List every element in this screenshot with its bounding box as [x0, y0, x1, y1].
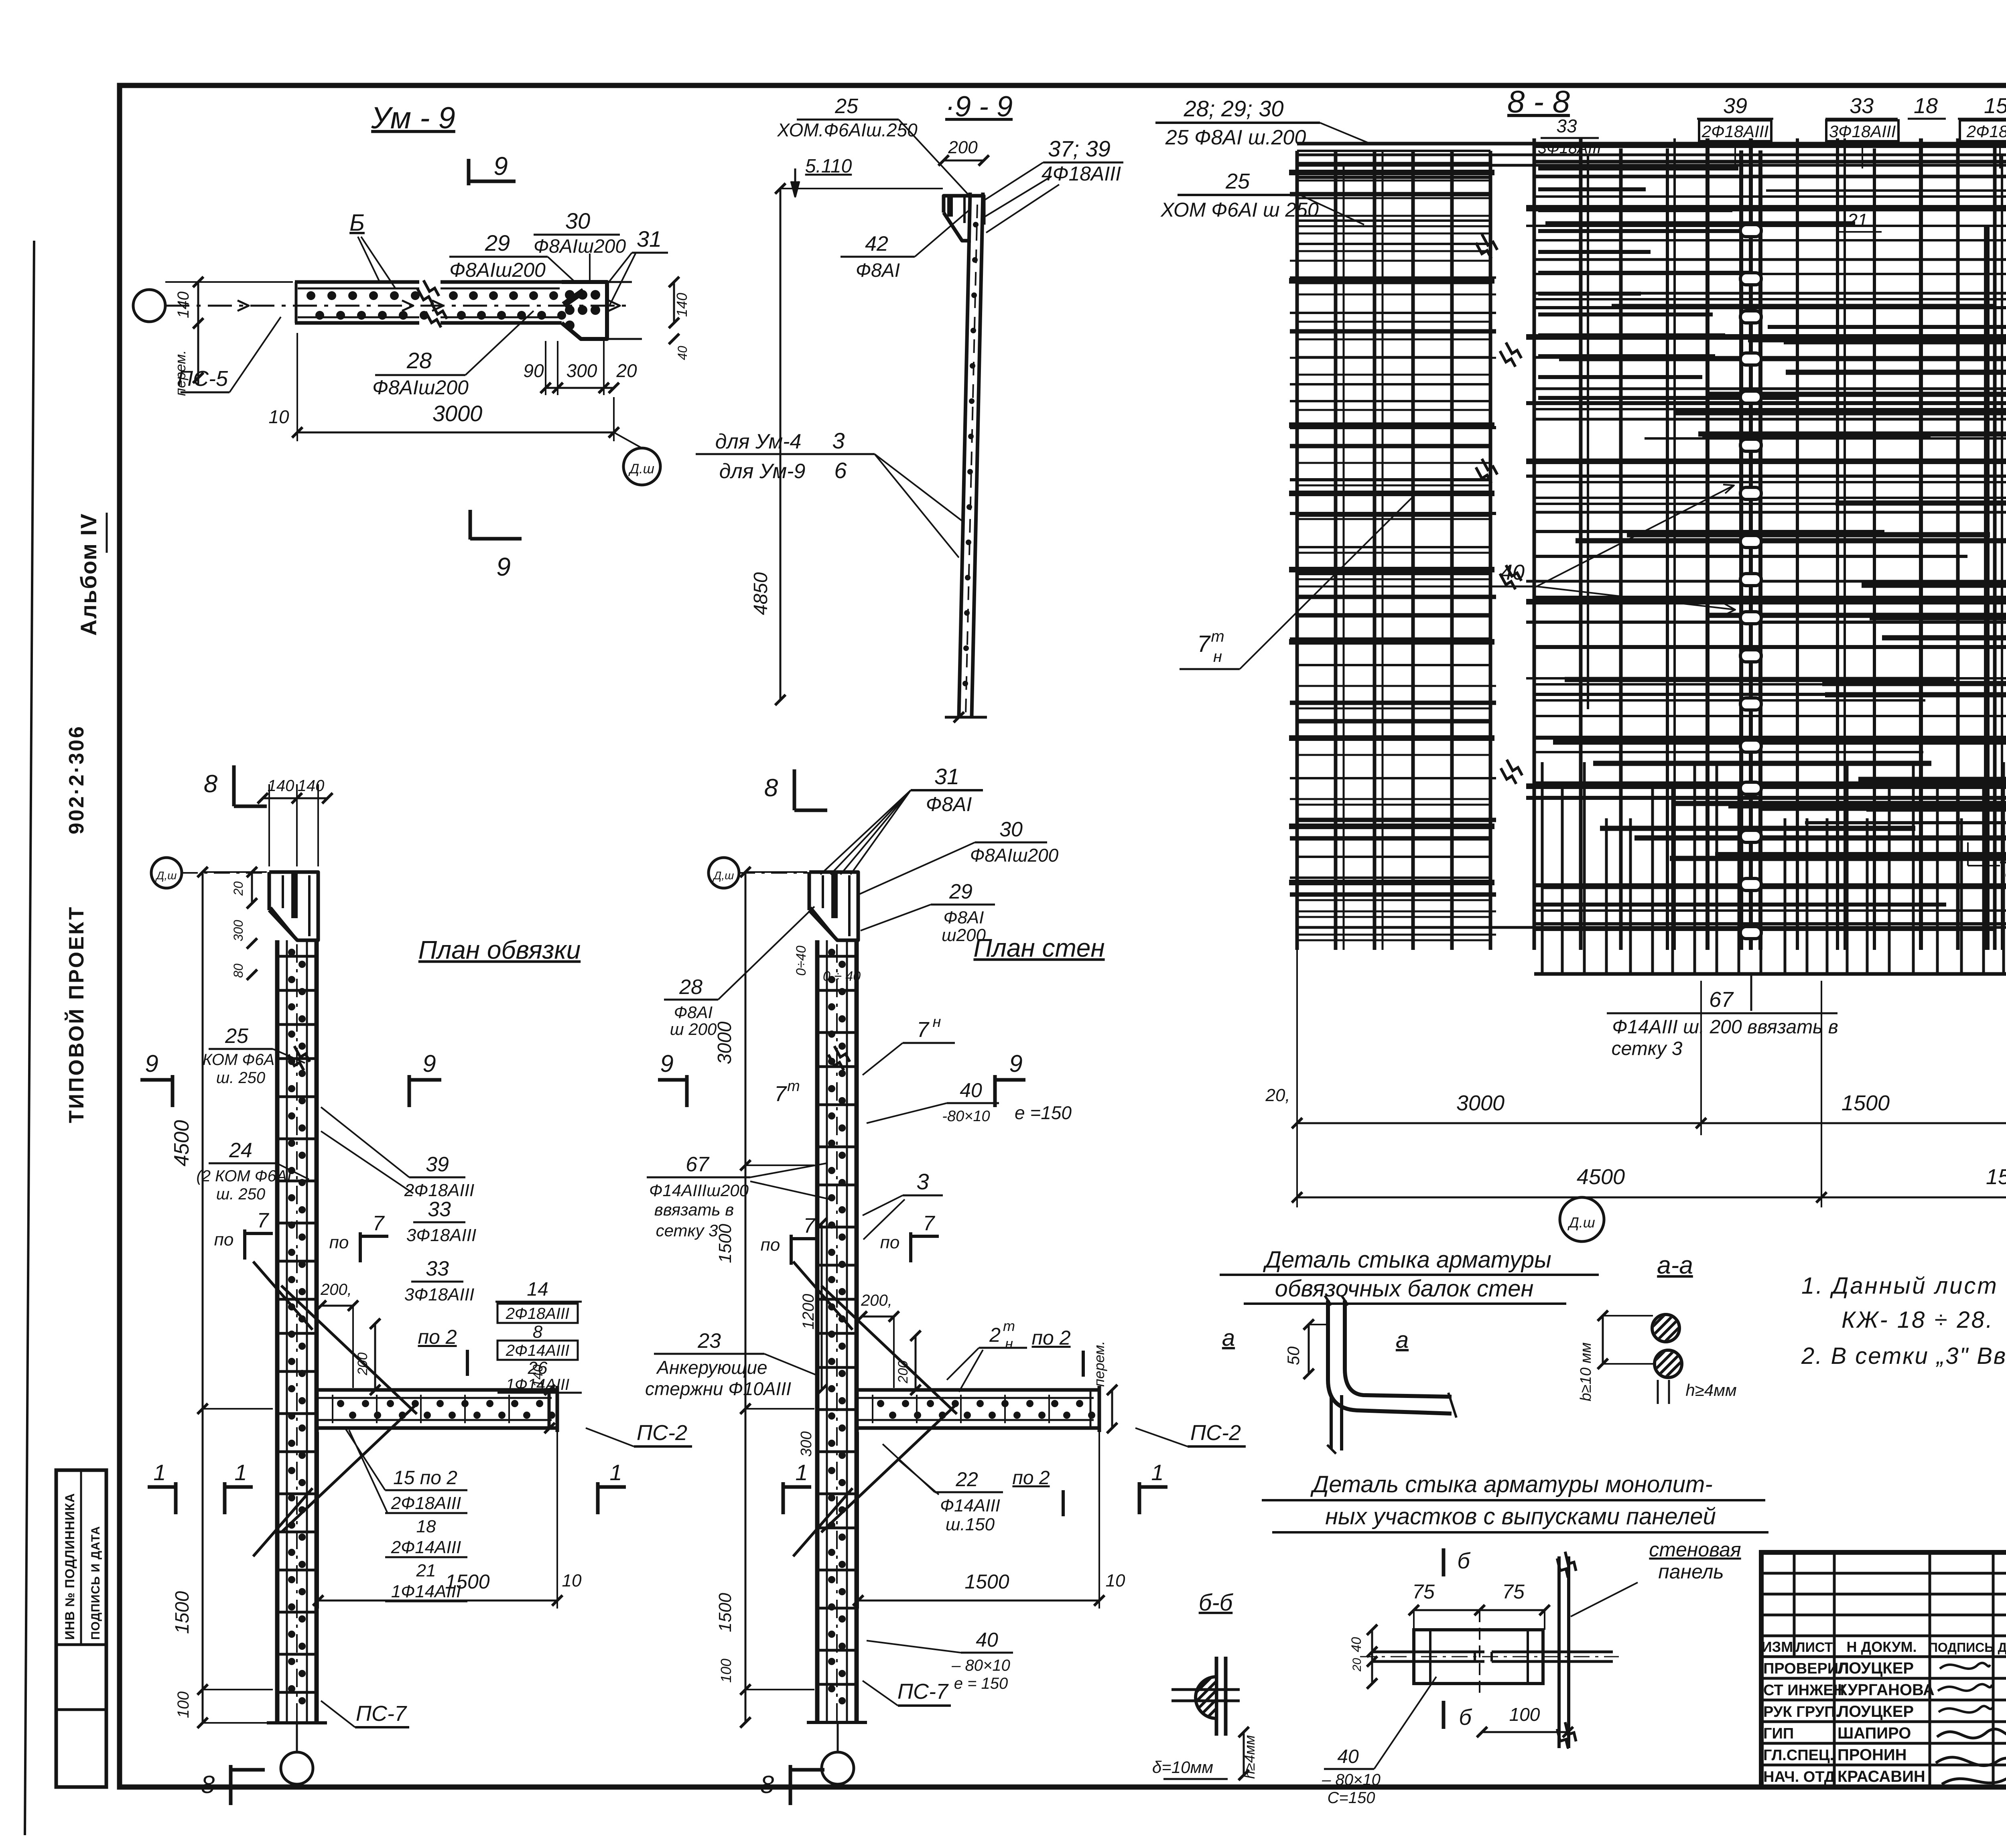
svg-text:40: 40: [1337, 1746, 1359, 1767]
svg-text:8: 8: [201, 1771, 215, 1799]
bottom extension lines under mesh: [1750, 975, 1752, 1011]
wall 9-9 top corbel: [944, 196, 984, 225]
svg-text:1500: 1500: [715, 1224, 735, 1263]
svg-text:ИНВ № ПОДЛИННИКА: ИНВ № ПОДЛИННИКА: [63, 1493, 77, 1640]
svg-text:90: 90: [523, 360, 544, 381]
svg-text:ПРОНИН: ПРОНИН: [1837, 1746, 1907, 1764]
svg-text:4Ф18АIII: 4Ф18АIII: [1042, 162, 1121, 185]
svg-text:300: 300: [231, 920, 246, 941]
svg-text:-80×10: -80×10: [942, 1108, 990, 1125]
svg-text:9: 9: [496, 552, 511, 581]
title block table: [1761, 1552, 2006, 1787]
svg-text:ш 200: ш 200: [670, 1020, 717, 1039]
svg-text:28; 29; 30: 28; 29; 30: [1183, 96, 1283, 121]
svg-text:ш. 250: ш. 250: [216, 1185, 265, 1203]
svg-text:20: 20: [231, 881, 246, 896]
svg-text:5.110: 5.110: [805, 156, 852, 177]
svg-text:2: 2: [989, 1324, 1001, 1346]
svg-text:20,: 20,: [1265, 1085, 1290, 1105]
wall 9-9 bottom ticks: [945, 716, 987, 719]
dim 140 140 above corbel A: [268, 784, 270, 866]
svg-text:37; 39: 37; 39: [1048, 136, 1111, 161]
svg-text:1: 1: [609, 1460, 622, 1485]
svg-text:h≥4мм: h≥4мм: [1685, 1381, 1736, 1400]
svg-text:т: т: [1003, 1318, 1015, 1334]
svg-text:ЛОУЦКЕР: ЛОУЦКЕР: [1837, 1703, 1914, 1720]
svg-text:ГЛ.СПЕЦ.: ГЛ.СПЕЦ.: [1763, 1747, 1834, 1764]
svg-text:Ум - 9: Ум - 9: [371, 101, 455, 135]
axis circle left: [133, 290, 165, 322]
axis circle Дш wall B top: [709, 858, 739, 888]
svg-text:ш200: ш200: [942, 925, 986, 945]
svg-text:Ф8АIш200: Ф8АIш200: [970, 845, 1059, 866]
beam Ум-9 left segment: [295, 280, 419, 284]
svg-text:0 ÷ 40: 0 ÷ 40: [823, 969, 861, 984]
svg-text:– 80×10: – 80×10: [1322, 1771, 1381, 1789]
wall A bottom axis circle: [281, 1752, 313, 1784]
svg-text:2Ф18АIII: 2Ф18АIII: [506, 1305, 570, 1323]
plan wall A (План обвязки): [275, 940, 280, 1723]
dim 140 перем left: [197, 282, 199, 323]
break marks on left panel: [1473, 234, 1500, 260]
beam Ум-9 right segment: [441, 280, 562, 284]
svg-text:40: 40: [1500, 560, 1525, 584]
svg-text:Ф14АIII ш. 200 ввязать в: Ф14АIII ш. 200 ввязать в: [1612, 1016, 1838, 1038]
svg-text:ХОМ.Ф6АIш.250: ХОМ.Ф6АIш.250: [777, 120, 918, 140]
svg-text:1500: 1500: [1986, 1165, 2006, 1189]
svg-text:e =150: e =150: [1015, 1102, 1072, 1123]
dim 4850 left of 9-9: [780, 189, 782, 700]
svg-text:4500: 4500: [1577, 1165, 1625, 1189]
plan wall B (План стен): [815, 940, 820, 1722]
svg-text:15: 15: [1984, 94, 2006, 118]
svg-text:4850: 4850: [750, 572, 772, 615]
svg-text:3: 3: [832, 428, 845, 453]
svg-text:ных участков с выпусками панел: ных участков с выпусками панелей: [1325, 1503, 1716, 1530]
section mark 9 right wall A: [408, 1075, 411, 1107]
svg-text:200,: 200,: [320, 1281, 352, 1298]
svg-text:25 Ф8АI ш.200: 25 Ф8АI ш.200: [1165, 126, 1306, 149]
svg-text:Деталь стыка арматуры монол: Деталь стыка арматуры монолит-: [1310, 1471, 1712, 1497]
section mark 1 far left: [174, 1482, 178, 1514]
dim 200 over wall top: [944, 160, 984, 162]
svg-text:перем.: перем.: [172, 350, 189, 396]
svg-text:стеновая: стеновая: [1649, 1538, 1741, 1561]
svg-text:1500: 1500: [715, 1593, 735, 1632]
svg-text:СТ ИНЖЕН: СТ ИНЖЕН: [1763, 1682, 1844, 1699]
mesh panel right (main armature mesh): [1533, 138, 1536, 950]
svg-text:Д.ш: Д.ш: [1567, 1214, 1595, 1231]
svg-text:ПС-7: ПС-7: [356, 1702, 407, 1726]
svg-text:20: 20: [616, 360, 637, 381]
svg-text:по 2: по 2: [1012, 1467, 1050, 1489]
svg-text:9: 9: [1009, 1050, 1022, 1077]
svg-text:по: по: [880, 1233, 900, 1252]
svg-text:50: 50: [1284, 1346, 1303, 1365]
dim 50 hook: [1308, 1325, 1310, 1374]
svg-text:2. В сетки „3" Ввязать с: 2. В сетки „3" Ввязать стержни поз. 67 (…: [1801, 1343, 2006, 1369]
beam break marks: [414, 280, 441, 306]
svg-text:ПРОВЕРИЛ: ПРОВЕРИЛ: [1763, 1660, 1849, 1677]
svg-text:для Ум-4: для Ум-4: [715, 430, 802, 453]
svg-text:33: 33: [1556, 116, 1577, 136]
svg-text:ТИПОВОЙ ПРОЕКТ: ТИПОВОЙ ПРОЕКТ: [65, 905, 88, 1123]
svg-text:6: 6: [834, 458, 847, 483]
beam centerline: [165, 305, 632, 307]
svg-text:т: т: [1211, 628, 1224, 645]
svg-text:200: 200: [355, 1353, 370, 1376]
svg-text:б-б: б-б: [1199, 1590, 1234, 1616]
svg-text:7: 7: [804, 1214, 816, 1237]
section mark 9 marks wall B: [685, 1075, 689, 1107]
wall B bottom axis circle: [822, 1752, 854, 1784]
svg-text:7: 7: [774, 1082, 787, 1106]
svg-text:29: 29: [485, 230, 510, 256]
sheet border frame: [25, 241, 34, 1835]
svg-text:25: 25: [225, 1024, 249, 1048]
svg-text:10: 10: [562, 1571, 582, 1590]
svg-text:30: 30: [999, 818, 1023, 841]
svg-text:б: б: [1459, 1704, 1472, 1730]
б-б weld detail left: [1215, 1657, 1218, 1736]
svg-text:1200: 1200: [800, 1294, 817, 1330]
svg-text:2Ф14АIII: 2Ф14АIII: [506, 1342, 570, 1359]
svg-text:Ф8АIш200: Ф8АIш200: [372, 376, 469, 399]
svg-text:а: а: [1396, 1327, 1409, 1353]
svg-text:3Ф18АIII: 3Ф18АIII: [406, 1225, 476, 1245]
svg-text:39: 39: [1723, 94, 1747, 118]
wall panel vertical line (стеновая панель): [1557, 1556, 1561, 1748]
mark б bottom: [1442, 1701, 1446, 1729]
svg-text:КУРГАНОВА: КУРГАНОВА: [1837, 1681, 1935, 1699]
svg-text:80: 80: [231, 964, 246, 978]
svg-text:9: 9: [422, 1050, 436, 1077]
section mark 9 left wall A: [171, 1075, 175, 1107]
svg-text:4500: 4500: [170, 1120, 193, 1166]
svg-text:67: 67: [686, 1153, 710, 1176]
svg-text:стержни Ф10АIII: стержни Ф10АIII: [645, 1378, 791, 1399]
top chord rows crossing panel gap: [1297, 142, 2006, 146]
svg-text:40: 40: [675, 346, 690, 360]
svg-text:Анкерующие: Анкерующие: [656, 1357, 767, 1378]
section mark 9 top: [467, 159, 471, 185]
svg-text:ЛИСТ: ЛИСТ: [1796, 1640, 1833, 1655]
svg-text:10: 10: [1106, 1571, 1125, 1590]
svg-text:1. Данный лист см. сов: 1. Данный лист см. совместно с листами: [1801, 1273, 2006, 1299]
svg-text:b≥10 мм: b≥10 мм: [1578, 1343, 1594, 1402]
svg-text:План обвязки: План обвязки: [418, 935, 581, 964]
dim 90 300 20 under corbel: [545, 341, 546, 395]
svg-text:40: 40: [960, 1079, 982, 1101]
svg-text:33: 33: [428, 1198, 451, 1221]
axis circle Дш wall A top: [151, 858, 182, 888]
svg-text:перем.: перем.: [1091, 1341, 1107, 1387]
svg-text:8: 8: [533, 1322, 543, 1342]
svg-text:28: 28: [679, 976, 703, 999]
svg-text:1500: 1500: [964, 1570, 1009, 1593]
svg-text:ЛОУЦКЕР: ЛОУЦКЕР: [1837, 1659, 1914, 1677]
svg-text:200: 200: [895, 1361, 911, 1384]
svg-text:Ф8АIш200: Ф8АIш200: [534, 236, 626, 257]
svg-text:ш.150: ш.150: [946, 1515, 995, 1534]
svg-text:100: 100: [718, 1659, 734, 1683]
wall section 9-9 (tall thin): [959, 193, 970, 716]
mesh joint column with weld capsules: [1739, 150, 1743, 950]
svg-text:т: т: [787, 1078, 800, 1095]
svg-text:140: 140: [674, 293, 690, 317]
svg-text:План стен: План стен: [973, 933, 1105, 962]
svg-text:·9 - 9: ·9 - 9: [945, 91, 1013, 123]
svg-text:РУК ГРУП.: РУК ГРУП.: [1763, 1704, 1840, 1720]
svg-text:42: 42: [865, 232, 888, 256]
dim 3000 bottom: [296, 333, 298, 441]
svg-text:100: 100: [1509, 1704, 1540, 1725]
svg-text:2Ф18АIII: 2Ф18АIII: [391, 1493, 461, 1513]
svg-text:10: 10: [268, 406, 289, 427]
svg-text:3000: 3000: [1456, 1091, 1504, 1115]
svg-text:– 80×10: – 80×10: [951, 1657, 1010, 1674]
svg-text:(2 КОМ Ф6АI: (2 КОМ Ф6АI: [196, 1167, 291, 1185]
svg-text:ввязать в: ввязать в: [654, 1200, 734, 1219]
svg-text:КЖ- 18 ÷ 28.: КЖ- 18 ÷ 28.: [1842, 1307, 1994, 1333]
svg-text:7: 7: [1197, 631, 1211, 657]
svg-text:ШАПИРО: ШАПИРО: [1837, 1724, 1911, 1742]
svg-text:18: 18: [1914, 94, 1938, 118]
svg-text:Ф8АI: Ф8АI: [943, 908, 984, 927]
svg-text:Ф8АI: Ф8АI: [856, 260, 900, 281]
svg-text:300: 300: [798, 1431, 815, 1456]
dim 140 right of beam: [673, 282, 675, 323]
svg-text:18: 18: [416, 1517, 436, 1536]
svg-text:по 2: по 2: [418, 1326, 457, 1348]
svg-text:7: 7: [373, 1212, 385, 1235]
svg-text:9: 9: [145, 1050, 158, 1077]
svg-text:по: по: [761, 1235, 780, 1255]
svg-text:ПОДПИСЬ И ДАТА: ПОДПИСЬ И ДАТА: [89, 1526, 102, 1640]
svg-text:2Ф18АIII: 2Ф18АIII: [1701, 122, 1769, 141]
svg-text:9: 9: [660, 1050, 673, 1077]
svg-text:Ф8АI: Ф8АI: [926, 793, 972, 815]
svg-text:25: 25: [834, 95, 859, 118]
svg-text:а: а: [1222, 1325, 1235, 1351]
svg-text:33: 33: [426, 1257, 449, 1280]
svg-text:обвязочных балок стен: обвязочных балок стен: [1275, 1276, 1534, 1302]
left margin stamp strip: [56, 1470, 106, 1787]
svg-text:140: 140: [268, 777, 294, 795]
svg-text:75: 75: [1502, 1580, 1525, 1603]
svg-text:1: 1: [795, 1460, 808, 1485]
svg-text:по 2: по 2: [1031, 1327, 1070, 1349]
mark б top: [1442, 1548, 1446, 1576]
title block signatures: [1940, 1663, 1990, 1669]
svg-text:23: 23: [697, 1329, 721, 1353]
svg-text:39: 39: [426, 1153, 449, 1176]
svg-text:200,: 200,: [861, 1292, 892, 1309]
svg-text:ПС-2: ПС-2: [1190, 1421, 1241, 1445]
svg-text:30: 30: [565, 208, 590, 233]
svg-text:Альбом IV: Альбом IV: [76, 513, 101, 636]
svg-text:НАЧ. ОТД: НАЧ. ОТД: [1763, 1769, 1835, 1785]
svg-text:300: 300: [566, 360, 597, 381]
dims below mesh 3000/1500 and 4500/1500/100: [1296, 950, 1298, 1207]
svg-text:22: 22: [955, 1468, 978, 1491]
svg-text:а-а: а-а: [1657, 1252, 1693, 1279]
svg-text:Д,ш: Д,ш: [713, 869, 734, 882]
svg-text:902·2·306: 902·2·306: [65, 725, 88, 834]
svg-text:1: 1: [1151, 1460, 1163, 1485]
svg-text:1500: 1500: [1842, 1091, 1890, 1115]
svg-text:Ф14АIII: Ф14АIII: [2004, 866, 2006, 884]
svg-text:ПОДПИСЬ: ПОДПИСЬ: [1929, 1640, 1994, 1655]
svg-text:24: 24: [229, 1139, 252, 1162]
beam end corbel (hatched): [562, 282, 607, 339]
svg-text:1: 1: [153, 1460, 166, 1485]
svg-text:Деталь стыка арматуры: Деталь стыка арматуры: [1263, 1247, 1551, 1273]
svg-text:Ф14АIII: Ф14АIII: [940, 1496, 1000, 1515]
svg-text:Д.ш: Д.ш: [628, 461, 654, 477]
axis circle Д.ш under mesh: [1560, 1197, 1604, 1241]
svg-text:КРАСАВИН: КРАСАВИН: [1837, 1768, 1925, 1785]
svg-text:ИЗМ: ИЗМ: [1762, 1639, 1793, 1655]
svg-text:100: 100: [175, 1692, 192, 1718]
svg-text:0÷40: 0÷40: [794, 945, 809, 976]
svg-text:8: 8: [764, 774, 778, 802]
svg-text:40: 40: [976, 1629, 998, 1651]
svg-text:δ=10мм: δ=10мм: [1152, 1758, 1213, 1777]
svg-text:КОМ Ф6АI: КОМ Ф6АI: [203, 1051, 279, 1069]
svg-text:8: 8: [204, 770, 218, 798]
svg-text:31: 31: [934, 764, 959, 789]
svg-text:2Ф14АIII: 2Ф14АIII: [391, 1538, 461, 1557]
svg-text:2Ф18АIII: 2Ф18АIII: [1966, 122, 2006, 141]
left dim line wall A 4500/1500/100: [202, 872, 204, 1723]
svg-text:3000: 3000: [714, 1021, 735, 1064]
svg-text:140: 140: [530, 1365, 546, 1388]
svg-text:2Ф18АIII: 2Ф18АIII: [404, 1181, 474, 1200]
svg-text:7: 7: [917, 1018, 930, 1042]
axis circle Д.ш right: [623, 448, 660, 485]
svg-text:140: 140: [175, 292, 192, 318]
svg-text:ГИП: ГИП: [1763, 1725, 1794, 1742]
svg-text:сетку 3: сетку 3: [656, 1221, 718, 1240]
svg-text:9: 9: [493, 152, 508, 181]
svg-text:8: 8: [760, 1771, 774, 1799]
svg-text:75: 75: [1412, 1580, 1435, 1603]
svg-text:ДАТА: ДАТА: [1998, 1640, 2006, 1655]
section mark 1 marks wall A: [223, 1482, 227, 1514]
svg-text:Ф8АI: Ф8АI: [674, 1003, 713, 1022]
svg-text:панель: панель: [1658, 1560, 1724, 1583]
svg-text:40: 40: [1349, 1637, 1364, 1652]
svg-text:7: 7: [923, 1212, 936, 1235]
svg-text:31: 31: [637, 226, 662, 252]
svg-text:Н ДОКУМ.: Н ДОКУМ.: [1847, 1639, 1917, 1655]
svg-text:7: 7: [257, 1209, 270, 1232]
svg-text:1500: 1500: [172, 1591, 193, 1634]
svg-text:ПС-7: ПС-7: [897, 1680, 949, 1704]
joint bars: [1372, 1651, 1484, 1653]
svg-text:ПС-2: ПС-2: [637, 1421, 687, 1445]
svg-text:25: 25: [1225, 169, 1250, 193]
svg-text:для Ум-9: для Ум-9: [719, 460, 806, 483]
svg-text:8 - 8: 8 - 8: [1507, 84, 1570, 119]
svg-text:Ф14АIIIш200: Ф14АIIIш200: [649, 1181, 749, 1200]
svg-text:21: 21: [1847, 210, 1868, 231]
svg-text:сетку 3: сетку 3: [1612, 1038, 1683, 1059]
svg-text:по: по: [214, 1230, 234, 1250]
svg-text:29: 29: [949, 880, 973, 903]
svg-text:по: по: [329, 1233, 349, 1252]
mesh panel left (сетка): [1295, 151, 1299, 950]
svg-text:1: 1: [234, 1460, 247, 1485]
svg-text:б: б: [1457, 1548, 1471, 1573]
svg-text:3Ф18АIII: 3Ф18АIII: [1538, 139, 1602, 157]
svg-text:21: 21: [416, 1561, 436, 1580]
dim 1500/10 below branch A: [317, 1432, 319, 1609]
svg-text:н: н: [1213, 648, 1222, 665]
dim 1500/10 below branch B: [857, 1432, 859, 1609]
svg-text:14: 14: [527, 1279, 548, 1300]
svg-text:3: 3: [916, 1169, 929, 1194]
svg-text:ХОМ Ф6АI ш 250: ХОМ Ф6АI ш 250: [1160, 199, 1319, 221]
svg-text:С=150: С=150: [1328, 1789, 1375, 1807]
svg-text:1500: 1500: [445, 1570, 489, 1593]
svg-text:20: 20: [1350, 1658, 1364, 1672]
svg-text:н: н: [1005, 1335, 1013, 1352]
svg-text:15 по 2: 15 по 2: [393, 1467, 457, 1489]
dim 100 joint: [1482, 1731, 1568, 1733]
svg-text:3000: 3000: [432, 401, 483, 426]
section mark 1 marks wall B: [782, 1482, 785, 1514]
svg-text:ш. 250: ш. 250: [216, 1069, 265, 1087]
svg-text:Д,ш: Д,ш: [155, 869, 177, 882]
svg-text:e = 150: e = 150: [954, 1675, 1008, 1692]
svg-text:3Ф18АIII: 3Ф18АIII: [404, 1285, 474, 1304]
svg-text:200: 200: [948, 138, 978, 157]
heavy vertical bar mid panel: [1984, 225, 1990, 950]
svg-text:67: 67: [1709, 988, 1734, 1012]
svg-text:Ф8АIш200: Ф8АIш200: [449, 259, 546, 281]
section mark 9 bottom: [469, 510, 472, 540]
svg-text:28: 28: [406, 348, 432, 373]
svg-text:33: 33: [1850, 94, 1874, 118]
left dim line wall B 3000/1500/1500/100: [745, 872, 747, 1722]
panel joint rectangles: [1414, 1630, 1543, 1684]
svg-text:н: н: [933, 1014, 941, 1030]
svg-text:3Ф18АIII: 3Ф18АIII: [1829, 122, 1896, 141]
bent bar hook detail: [1328, 1300, 1452, 1414]
svg-text:Б: Б: [349, 210, 365, 236]
svg-text:140: 140: [298, 777, 325, 795]
